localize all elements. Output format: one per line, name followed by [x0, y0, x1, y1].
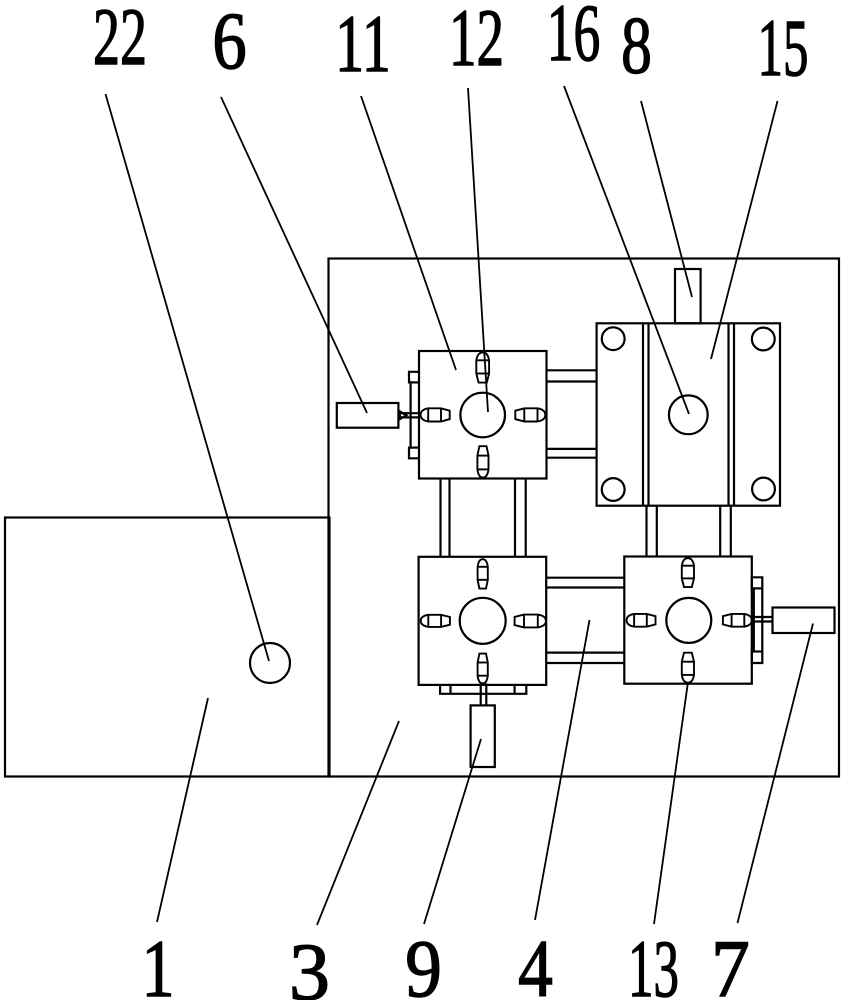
lower-right block east bullet	[723, 614, 752, 627]
lower-right block right side bracket	[752, 577, 763, 663]
left support box 1	[5, 518, 330, 777]
actuator 6 rectangle	[337, 403, 399, 428]
leader line for label 4	[535, 620, 590, 920]
block 15 corner bolt hole top-right	[752, 328, 775, 351]
block 15 center shaft hole 16	[669, 395, 708, 434]
svg-text:6: 6	[212, 0, 246, 86]
leader line for label 9	[424, 739, 481, 924]
lower-left block west bullet	[421, 615, 450, 627]
svg-text:4: 4	[518, 924, 553, 1000]
lower-right block west bullet	[627, 614, 656, 627]
block 15 corner bolt hole bottom-left	[602, 478, 625, 501]
leader line for label 8	[641, 101, 692, 297]
upper horizontal guide rail (UL to right block), top bar	[547, 369, 597, 371]
block 15 corner bolt hole top-left	[602, 327, 625, 350]
block 15 inner guide lines	[642, 323, 644, 505]
block 11 center hole 12	[460, 393, 505, 438]
block 11 east bullet	[515, 408, 545, 421]
lower-left block bottom bracket	[440, 685, 526, 694]
svg-text:1: 1	[141, 924, 174, 1000]
block 11 south bullet	[477, 446, 488, 477]
block 11 north bullet	[476, 352, 489, 382]
svg-text:13: 13	[628, 923, 679, 1000]
large slide block 15	[597, 323, 780, 505]
actuator 7 rectangle	[773, 608, 835, 634]
stub block 8 on top of block 15	[675, 269, 701, 323]
actuator 9 stem	[480, 683, 482, 705]
leader line for label 1	[157, 698, 208, 922]
svg-text:12: 12	[449, 0, 504, 84]
actuator 6 rod	[398, 412, 419, 414]
lower horizontal guide rail 4, top bar	[546, 577, 624, 579]
svg-text:8: 8	[621, 0, 652, 91]
leader line for label 3	[317, 721, 399, 925]
svg-text:16: 16	[547, 0, 601, 78]
svg-text:22: 22	[93, 0, 147, 83]
leader line for label 6	[221, 97, 367, 413]
lower-right block south bullet	[682, 653, 694, 683]
circle 22 on left box	[250, 643, 290, 683]
svg-text:9: 9	[405, 923, 442, 1000]
lower-left slide block	[419, 557, 547, 685]
svg-text:15: 15	[758, 2, 809, 93]
block 15 corner bolt hole bottom-right	[752, 478, 775, 501]
lower-right slide block 13	[624, 557, 752, 684]
leader line for label 11	[361, 96, 456, 370]
leader line for label 13	[654, 682, 688, 924]
lower-left block south bullet	[478, 654, 488, 684]
block 11 west bullet	[421, 408, 450, 421]
lower-right block north bullet	[682, 558, 694, 587]
lower-left block north bullet	[478, 559, 488, 588]
upper horizontal guide rail (UL to right block), bottom bar	[547, 448, 597, 450]
block 11 left side bracket	[409, 372, 419, 459]
leader line for label 12	[468, 88, 488, 412]
svg-text:7: 7	[711, 924, 750, 1000]
lower horizontal guide rail 4, bottom bar	[546, 651, 624, 653]
lower-left block east bullet	[515, 615, 546, 628]
leader line for label 7	[738, 624, 814, 924]
actuator 7 rod	[752, 616, 773, 618]
leader line for label 16	[564, 86, 689, 414]
upper-left slide block 11	[419, 351, 547, 479]
lower-left block center hole	[460, 598, 506, 644]
leader line for label 15	[711, 101, 778, 359]
left vertical guide rail pair (UL to LL)	[439, 479, 441, 558]
base plate 3 (large rectangle)	[329, 259, 840, 777]
svg-text:11: 11	[335, 0, 391, 89]
leader line for label 22	[106, 94, 270, 661]
lower-right block center hole	[666, 598, 711, 643]
actuator 9 rectangle	[471, 705, 495, 767]
right vertical guide rail pair (right block to LR)	[645, 506, 647, 557]
svg-text:3: 3	[289, 926, 330, 1000]
